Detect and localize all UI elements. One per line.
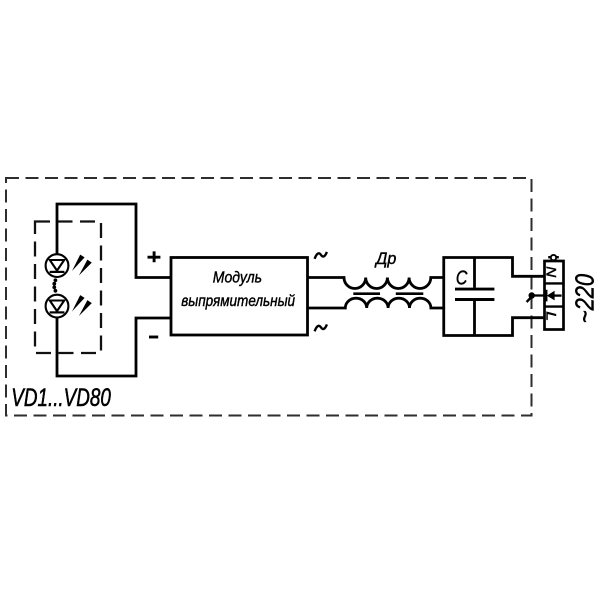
svg-text:L: L	[543, 311, 558, 321]
svg-text:N: N	[543, 266, 558, 277]
svg-text:C: C	[456, 267, 468, 289]
svg-text:Модуль: Модуль	[213, 270, 262, 287]
svg-text:выпрямительный: выпрямительный	[181, 293, 295, 310]
svg-text:Др: Др	[374, 250, 396, 268]
svg-text:VD1...VD80: VD1...VD80	[11, 384, 111, 412]
svg-text:~220: ~220	[572, 274, 600, 323]
